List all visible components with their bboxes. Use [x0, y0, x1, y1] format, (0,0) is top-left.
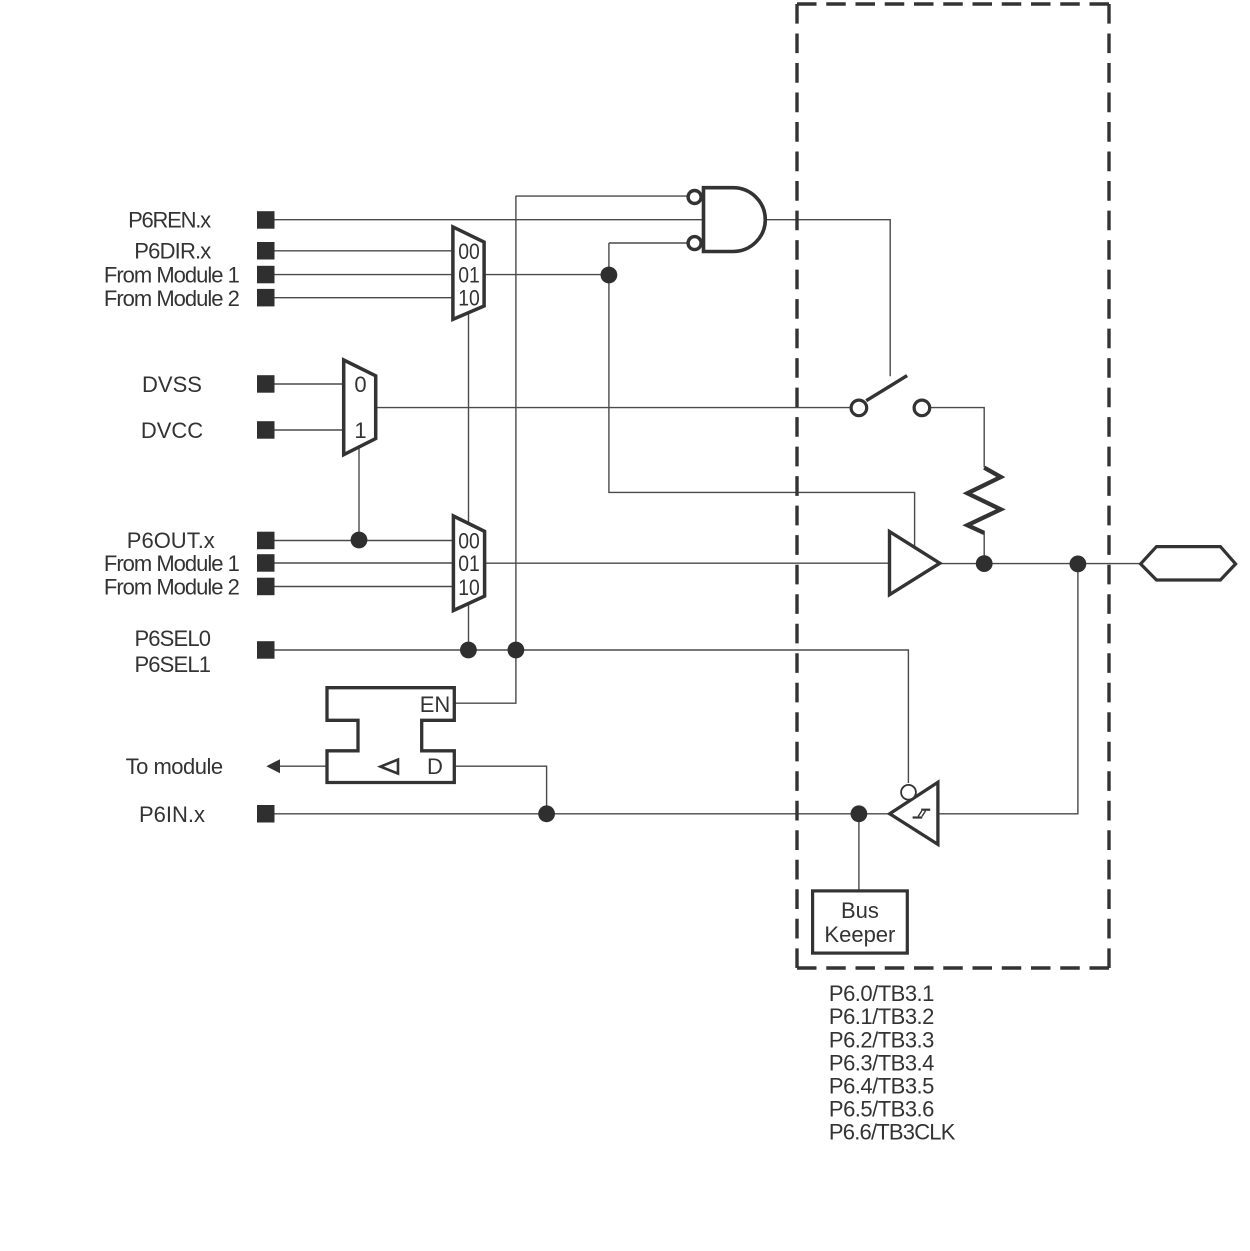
svg-text:P6REN.x: P6REN.x: [128, 208, 211, 233]
svg-text:To module: To module: [126, 754, 224, 779]
svg-text:P6IN.x: P6IN.x: [139, 802, 205, 827]
svg-text:P6.3/TB3.4: P6.3/TB3.4: [829, 1050, 935, 1075]
svg-text:DVCC: DVCC: [141, 418, 203, 443]
svg-text:P6DIR.x: P6DIR.x: [134, 239, 211, 264]
svg-text:From Module 1: From Module 1: [104, 551, 240, 576]
svg-text:P6OUT.x: P6OUT.x: [127, 528, 215, 553]
svg-text:P6.2/TB3.3: P6.2/TB3.3: [829, 1027, 935, 1052]
svg-text:DVSS: DVSS: [142, 372, 202, 397]
svg-text:00: 00: [458, 240, 480, 264]
svg-text:P6SEL1: P6SEL1: [134, 652, 211, 677]
svg-text:01: 01: [458, 552, 480, 576]
svg-text:Bus: Bus: [841, 898, 879, 923]
svg-text:P6.6/TB3CLK: P6.6/TB3CLK: [829, 1119, 956, 1144]
svg-text:P6.5/TB3.6: P6.5/TB3.6: [829, 1096, 935, 1121]
svg-text:From Module 1: From Module 1: [104, 263, 240, 288]
svg-text:P6.4/TB3.5: P6.4/TB3.5: [829, 1073, 935, 1098]
svg-text:EN: EN: [420, 692, 451, 717]
svg-text:P6.1/TB3.2: P6.1/TB3.2: [829, 1004, 935, 1029]
svg-text:01: 01: [458, 263, 480, 287]
svg-text:10: 10: [458, 576, 480, 600]
svg-text:P6.0/TB3.1: P6.0/TB3.1: [829, 981, 935, 1006]
svg-text:From Module 2: From Module 2: [104, 575, 240, 600]
svg-text:1: 1: [354, 418, 366, 443]
svg-text:P6SEL0: P6SEL0: [134, 626, 211, 651]
svg-text:D: D: [427, 754, 443, 779]
svg-text:Keeper: Keeper: [824, 922, 895, 947]
svg-text:00: 00: [458, 529, 480, 553]
svg-text:From Module 2: From Module 2: [104, 286, 240, 311]
svg-text:10: 10: [458, 287, 480, 311]
svg-text:0: 0: [354, 372, 366, 397]
